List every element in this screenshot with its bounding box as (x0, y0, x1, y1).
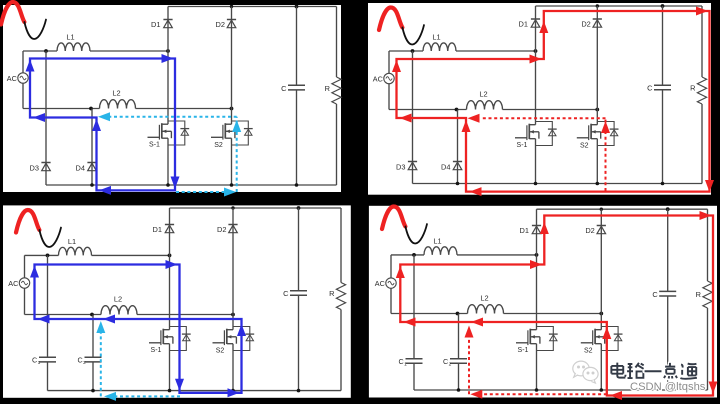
wire S1 source lead panel 2 (535, 146, 537, 184)
wire middle rail panel 4 (391, 313, 468, 315)
wire S1 source lead panel 4 (536, 351, 538, 391)
svg-text:C: C (443, 357, 448, 366)
wire S2 source lead panel 3 (232, 351, 234, 391)
current arrow left panel 4 (471, 318, 483, 327)
wire D3 branch panel 2 (412, 51, 414, 184)
wire AC top vertical panel 3 (24, 255, 26, 277)
wire current path solid panel 4 (400, 216, 713, 396)
svg-text:R: R (329, 289, 334, 298)
wire top rail panel 4 (537, 208, 708, 210)
current arrow down panel 2 (705, 180, 714, 192)
diode D2 panel 2 (593, 18, 602, 20)
current arrow down panel 1 (171, 177, 180, 189)
wire C2 branch panel 4 (458, 314, 460, 359)
wire C branch panel 4 (667, 209, 669, 291)
wire D2 branch panel 4 (600, 209, 602, 313)
svg-text:L1: L1 (433, 237, 441, 246)
svg-text:1: 1 (404, 361, 407, 367)
node L1 left junction panel 1 (44, 49, 48, 53)
capacitor C panel 1 (288, 84, 305, 86)
wire D1 branch panel 2 (535, 6, 537, 51)
node L1 output panel 3 (168, 254, 172, 258)
wire current path dashed panel 3 (116, 395, 180, 397)
node bottom rail at C panel 3 (297, 389, 301, 393)
wire S1 source lead panel 1 (167, 145, 169, 185)
diode D1 panel 4 (532, 225, 541, 227)
wire S2 source lead panel 1 (231, 145, 233, 185)
current arrow left panel 4 (404, 318, 416, 327)
node L2 output panel 3 (231, 313, 235, 317)
svg-text:C: C (647, 84, 653, 93)
current arrow down panel 4 (709, 382, 718, 394)
wire S2 source lead panel 4 (600, 351, 602, 391)
wire L1 row panel 1 (23, 50, 57, 52)
current arrow up panel 1 (92, 119, 101, 131)
resistor R panel 4 (703, 281, 712, 308)
capacitor C panel 2 (654, 84, 671, 86)
node C top panel 2 (661, 4, 665, 8)
diode D1 panel 3 (165, 224, 174, 226)
svg-text:CSDN @ltqshs: CSDN @ltqshs (630, 381, 706, 393)
current arrow up panel 3 (30, 266, 39, 278)
sine wave (AC half-cycles) panel 2 (379, 8, 402, 31)
node D2 top panel 1 (230, 5, 233, 8)
svg-text:L1: L1 (432, 33, 440, 42)
node L2 input panel 4 (456, 312, 460, 316)
svg-text:D1: D1 (519, 20, 528, 29)
wire bottom rail panel 2 (413, 183, 703, 185)
wire bottom rail panel 4 (414, 389, 708, 391)
current arrow dashed up panel 1 (232, 120, 241, 132)
svg-text:C: C (283, 289, 289, 298)
node L2 input panel 1 (89, 107, 93, 111)
wire current path solid panel 3 (35, 265, 242, 393)
sine wave (AC half-cycles) panel 4 (382, 207, 405, 230)
wire bottom rail panel 1 (46, 184, 337, 186)
svg-text:D2: D2 (216, 20, 225, 29)
svg-text:D4: D4 (441, 163, 450, 172)
wire C branch panel 3 (298, 208, 300, 291)
node bottom rail at C2/D4 panel 2 (456, 182, 460, 186)
node bottom rail at S1 panel 2 (534, 182, 538, 186)
svg-text:AC: AC (373, 74, 383, 83)
inductor L2 panel 1 (100, 100, 136, 109)
node L2 output panel 4 (599, 312, 603, 316)
svg-text:AC: AC (8, 279, 18, 288)
current arrow dashed up panel 4 (465, 326, 474, 338)
node D2 top panel 2 (596, 4, 599, 7)
current arrow up panel 4 (396, 266, 405, 278)
wire middle rail panel 3 (25, 314, 102, 316)
node bottom rail at S1 panel 1 (166, 183, 170, 187)
diode D4 panel 2 (453, 161, 462, 163)
wire D4 branch panel 1 (91, 109, 93, 186)
node bottom rail at C panel 1 (295, 183, 299, 187)
wire R branch panel 4 (707, 209, 709, 281)
wire S1 drain lead panel 4 (536, 255, 538, 327)
wire L1 row panel 2 (389, 50, 423, 52)
capacitor C1 panel 4 (406, 358, 423, 360)
node L1 output panel 4 (535, 253, 539, 257)
svg-text:D3: D3 (396, 163, 405, 172)
current arrow up panel 2 (539, 21, 548, 33)
current arrow dashed right panel 1 (224, 188, 236, 197)
wire top rail panel 3 (170, 207, 342, 209)
wire top rail panel 1 (168, 6, 337, 8)
svg-text:C: C (77, 355, 82, 364)
node D2 top panel 4 (600, 208, 603, 211)
resistor R panel 1 (332, 77, 341, 104)
wire S1 source lead panel 3 (169, 351, 171, 391)
transistor S2 panel 1 (231, 121, 233, 124)
svg-text:2: 2 (83, 360, 86, 366)
node bottom rail at C2/D4 panel 4 (457, 388, 461, 392)
inductor L2 panel 3 (101, 306, 137, 315)
transistor S2 panel 2 (596, 122, 598, 125)
AC source panel 3 (19, 278, 29, 288)
node L1 left junction panel 2 (411, 49, 415, 53)
wire current path dashed panel 4 (482, 393, 607, 395)
wire C2 branch panel 3 (92, 315, 94, 358)
current arrow dashed up panel 2 (601, 121, 610, 133)
wire AC bottom vertical panel 1 (22, 83, 24, 108)
svg-text:D1: D1 (151, 20, 160, 29)
svg-text:AC: AC (7, 74, 17, 83)
node bottom rail at S2 panel 1 (230, 183, 234, 187)
svg-text:L2: L2 (479, 89, 487, 98)
transistor S1 panel 4 (536, 327, 538, 330)
wire middle rail panel 1 (23, 108, 100, 110)
current arrow dashed left panel 2 (468, 114, 480, 123)
sine wave (AC half-cycles) panel 3 (16, 210, 39, 233)
inductor L1 panel 2 (423, 43, 456, 51)
svg-text:L2: L2 (114, 294, 122, 303)
wire S1 drain lead panel 2 (535, 51, 537, 122)
capacitor C2 panel 4 (450, 358, 467, 360)
node C top panel 3 (297, 206, 301, 210)
AC source panel 1 (18, 73, 28, 83)
wire C1 branch panel 4 (413, 255, 415, 359)
wire S1 drain lead panel 3 (169, 255, 171, 326)
wire D2 branch panel 3 (232, 208, 234, 315)
wire D2 branch panel 1 (231, 7, 233, 109)
svg-text:S2: S2 (580, 143, 589, 150)
node bottom rail at C2/D4 panel 1 (90, 183, 94, 187)
node bottom rail at S2 panel 2 (596, 182, 600, 186)
current arrow dashed left panel 1 (98, 112, 110, 121)
wire C branch panel 1 (296, 7, 298, 86)
svg-text:R: R (696, 290, 701, 299)
svg-text:L2: L2 (112, 88, 120, 97)
svg-text:S-1: S-1 (517, 142, 528, 149)
transistor S1 panel 1 (167, 121, 169, 124)
wire current path solid panel 1 (30, 59, 175, 191)
transistor S1 panel 2 (535, 122, 537, 125)
current arrow up panel 2 (392, 60, 401, 72)
current arrow up panel 4 (540, 222, 549, 234)
inductor L1 panel 1 (57, 43, 90, 51)
diode D2 panel 4 (597, 225, 606, 227)
current arrow dashed left panel 3 (104, 392, 116, 401)
svg-text:L1: L1 (68, 237, 76, 246)
wire D3 branch panel 1 (45, 51, 47, 185)
wire current path solid panel 2 (397, 11, 710, 192)
current arrow right panel 4 (700, 211, 712, 220)
svg-text:S2: S2 (584, 348, 593, 355)
node D2 top panel 3 (231, 206, 234, 209)
wire S2 source lead panel 2 (596, 146, 598, 184)
wire AC bottom vertical panel 4 (390, 288, 392, 313)
svg-text:D1: D1 (520, 226, 529, 235)
svg-text:C: C (398, 357, 403, 366)
wire D4 branch panel 2 (457, 110, 459, 184)
node L1 output panel 1 (166, 49, 170, 53)
node bottom rail at C panel 2 (661, 182, 665, 186)
node L1 left junction panel 3 (46, 254, 50, 258)
transistor S2 panel 3 (232, 327, 234, 330)
wire C1 branch panel 3 (47, 255, 49, 357)
diode D4 panel 1 (87, 162, 96, 164)
node bottom rail at C panel 4 (666, 388, 670, 392)
svg-text:S2: S2 (216, 348, 225, 355)
current arrow dashed left panel 4 (470, 390, 482, 399)
node bottom rail at S1 panel 4 (535, 388, 539, 392)
node bottom rail at S2 panel 3 (231, 389, 235, 393)
wire L1 row panel 4 (391, 254, 424, 256)
wire R branch panel 3 (340, 208, 342, 283)
diode D1 panel 2 (531, 18, 540, 20)
transistor S1 panel 3 (169, 327, 171, 330)
current arrow right panel 2 (696, 7, 708, 16)
inductor L1 panel 3 (59, 247, 92, 255)
svg-text:R: R (690, 84, 695, 93)
svg-text:S-1: S-1 (518, 347, 529, 354)
wire current path dashed panel 1 (176, 191, 224, 193)
resistor R panel 2 (697, 77, 706, 104)
wire S1 drain lead panel 1 (167, 51, 169, 121)
panel backgrounds (3, 5, 341, 192)
capacitor C panel 4 (659, 290, 676, 292)
AC source panel 2 (384, 73, 394, 83)
wire C branch panel 2 (662, 6, 664, 85)
AC source panel 4 (386, 278, 396, 288)
node L2 output panel 1 (230, 107, 234, 111)
node L2 input panel 2 (455, 108, 459, 112)
svg-text:C: C (652, 290, 658, 299)
current arrow right panel 1 (162, 54, 174, 63)
wire R branch panel 1 (336, 7, 338, 78)
inductor L2 panel 4 (468, 305, 504, 314)
current arrow left panel 3 (103, 315, 115, 324)
current arrow left panel 2 (470, 187, 482, 196)
node L1 left junction panel 4 (412, 253, 416, 257)
wire AC top vertical panel 2 (388, 51, 390, 73)
current arrow up panel 3 (237, 324, 246, 336)
wire top rail panel 2 (536, 5, 703, 7)
svg-text:D4: D4 (76, 164, 85, 173)
svg-text:D2: D2 (585, 226, 594, 235)
current arrow up panel 1 (26, 60, 35, 72)
current arrow left panel 1 (33, 113, 45, 122)
current arrow right panel 4 (530, 260, 542, 269)
wire AC top vertical panel 4 (390, 255, 392, 278)
wire S2 drain lead panel 4 (600, 314, 602, 327)
svg-text:C: C (281, 84, 287, 93)
node L2 output panel 2 (595, 108, 599, 112)
node L2 input panel 3 (90, 313, 94, 317)
current arrow down panel 3 (175, 379, 184, 391)
current arrow left panel 4 (610, 391, 622, 400)
node C top panel 4 (666, 207, 670, 211)
current arrow left panel 3 (38, 315, 50, 324)
wire bottom rail panel 3 (48, 390, 342, 392)
node bottom rail at S1 panel 3 (168, 389, 172, 393)
svg-text:L2: L2 (480, 293, 488, 302)
diode D3 panel 1 (41, 162, 50, 164)
resistor R panel 3 (336, 283, 345, 310)
wire R branch panel 2 (701, 6, 703, 77)
wire D1 branch panel 3 (169, 208, 171, 255)
svg-text:R: R (325, 84, 330, 93)
inductor L2 panel 2 (467, 101, 503, 110)
watermark text 电路一点通 (611, 363, 625, 378)
node C top panel 1 (295, 5, 299, 9)
diode D3 panel 2 (408, 161, 417, 163)
svg-text:D2: D2 (581, 20, 590, 29)
current arrow right panel 3 (166, 260, 178, 269)
current arrow dashed up panel 3 (96, 321, 105, 333)
wire S2 drain lead panel 1 (231, 109, 233, 122)
capacitor C2 panel 3 (85, 356, 102, 358)
wire S2 drain lead panel 3 (232, 315, 234, 327)
svg-text:AC: AC (375, 279, 385, 288)
node bottom rail at S2 panel 4 (600, 388, 604, 392)
svg-text:S-1: S-1 (149, 142, 160, 149)
current arrow up panel 4 (602, 327, 611, 339)
svg-text:S-1: S-1 (151, 347, 162, 354)
diode D1 panel 1 (163, 19, 172, 21)
node L1 output panel 2 (534, 49, 538, 53)
transistor S2 panel 4 (600, 327, 602, 330)
wire L1 row panel 3 (25, 254, 59, 256)
svg-text:C: C (32, 355, 37, 364)
svg-text:1: 1 (38, 360, 41, 366)
svg-text:S2: S2 (214, 142, 223, 149)
wire S2 drain lead panel 2 (596, 110, 598, 122)
watermark chat-bubble doodle (573, 361, 598, 383)
sine wave (AC half-cycles) panel 1 (1, 2, 24, 25)
wire AC top vertical panel 1 (22, 51, 24, 73)
svg-text:D2: D2 (217, 225, 226, 234)
current arrow left panel 1 (99, 186, 111, 195)
svg-text:2: 2 (449, 361, 452, 367)
node bottom rail at C2/D4 panel 3 (91, 389, 95, 393)
current arrow left panel 2 (400, 114, 412, 123)
current arrow up panel 2 (462, 120, 471, 132)
diode D2 panel 3 (228, 224, 237, 226)
wire D1 branch panel 4 (536, 209, 538, 255)
svg-text:L1: L1 (66, 33, 74, 42)
svg-text:D1: D1 (153, 225, 162, 234)
diode D2 panel 1 (227, 19, 236, 21)
current arrow right panel 3 (228, 388, 240, 397)
wire middle rail panel 2 (389, 109, 467, 111)
svg-text:D3: D3 (30, 164, 39, 173)
inductor L1 panel 4 (424, 247, 457, 255)
wire AC bottom vertical panel 2 (388, 84, 390, 110)
current arrow right panel 2 (530, 55, 542, 64)
capacitor C panel 3 (290, 290, 307, 292)
wire current path dashed panel 2 (605, 118, 607, 191)
wire D1 branch panel 1 (167, 7, 169, 52)
wire D2 branch panel 2 (596, 6, 598, 110)
capacitor C1 panel 3 (39, 356, 56, 358)
wire AC bottom vertical panel 3 (24, 288, 26, 314)
